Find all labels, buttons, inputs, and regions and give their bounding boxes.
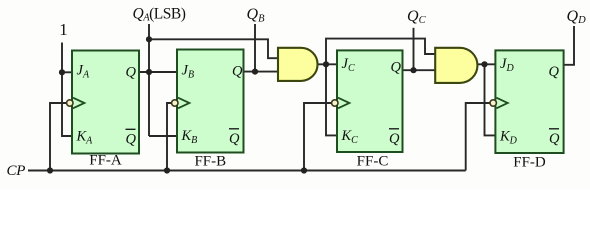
clock bubble FF-C bbox=[332, 100, 338, 106]
label CP bbox=[7, 163, 26, 179]
svg-text:Q: Q bbox=[126, 132, 137, 148]
wire AND1 output to AND2 upper input bbox=[326, 39, 436, 65]
flip-flop FF-C body bbox=[337, 50, 403, 152]
label QC-bar pin bbox=[389, 129, 400, 147]
clock bubble FF-D bbox=[490, 100, 496, 106]
wire QA to AND1 upper input bbox=[149, 39, 278, 58]
label QC pin bbox=[391, 60, 402, 76]
label JA bbox=[77, 63, 90, 81]
label KB bbox=[181, 128, 198, 146]
svg-text:Q: Q bbox=[549, 64, 560, 80]
label KD bbox=[499, 129, 518, 147]
label QC bbox=[407, 8, 427, 26]
node QC branch bbox=[410, 67, 416, 73]
clock triangle FF-A bbox=[73, 98, 84, 109]
wire QC net: QC output to AND2 lower input bbox=[403, 28, 436, 70]
label QD-bar pin bbox=[549, 129, 560, 147]
node QA/AND1 branch bbox=[146, 36, 152, 42]
wire logic-1 to JA and KA bbox=[62, 43, 72, 137]
node JA/KA tie bbox=[59, 69, 65, 75]
wire AND1 output down to KC bbox=[326, 64, 337, 135]
svg-text:FF-C: FF-C bbox=[357, 154, 389, 170]
svg-text:Q: Q bbox=[232, 64, 243, 80]
node AND2 output bbox=[481, 61, 487, 67]
AND gate 1 (QA.QB) bbox=[278, 48, 318, 81]
label QD pin bbox=[549, 64, 560, 80]
flip-flop FF-A body bbox=[72, 51, 139, 154]
label QA-bar pin bbox=[126, 129, 137, 147]
label QD bbox=[567, 8, 587, 26]
wire AND2 output down to KD bbox=[485, 64, 496, 135]
label FF-C bbox=[357, 154, 389, 170]
svg-text:Q: Q bbox=[389, 131, 400, 147]
label KA bbox=[76, 129, 94, 147]
svg-text:Q: Q bbox=[391, 60, 402, 76]
label QA pin bbox=[126, 65, 137, 81]
flip-flop FF-B body bbox=[177, 50, 244, 153]
label QB bbox=[247, 6, 266, 24]
label QB-bar pin bbox=[229, 129, 240, 147]
clock triangle FF-B bbox=[178, 98, 189, 109]
label FF-B bbox=[194, 154, 226, 170]
wire CP bus bbox=[28, 170, 466, 172]
node QB branch bbox=[252, 69, 258, 75]
node CP/FF-C junction bbox=[301, 167, 307, 173]
label JD bbox=[500, 56, 514, 74]
clock triangle FF-C bbox=[338, 98, 349, 109]
svg-text:FF-A: FF-A bbox=[89, 153, 122, 169]
node CP/FF-B junction bbox=[164, 167, 170, 173]
svg-text:Q: Q bbox=[549, 131, 560, 147]
wire QD output up to QD label bbox=[563, 26, 574, 65]
node QA/JB junction bbox=[146, 69, 152, 75]
clock bubble FF-B bbox=[172, 100, 178, 106]
clock bubble FF-A bbox=[67, 100, 73, 106]
label JB bbox=[182, 63, 195, 81]
svg-text:FF-B: FF-B bbox=[194, 154, 226, 170]
node AND1 output bbox=[323, 61, 329, 67]
svg-text:Q: Q bbox=[229, 131, 240, 147]
svg-text:FF-D: FF-D bbox=[513, 155, 546, 171]
label QB pin bbox=[232, 64, 243, 80]
wire CP to FF-A clock bbox=[50, 103, 66, 171]
label KC bbox=[341, 128, 359, 146]
svg-text:QA(LSB): QA(LSB) bbox=[133, 6, 186, 24]
wire CP to FF-D clock bbox=[466, 103, 490, 171]
label logic 1 bbox=[59, 20, 68, 39]
wire QA net: QA output to JB and up to QA label bbox=[139, 24, 177, 136]
wire AND2 output to JD bbox=[478, 63, 496, 65]
label QA (LSB) bbox=[133, 6, 186, 24]
svg-text:Q: Q bbox=[126, 65, 137, 81]
flip-flop FF-D body bbox=[495, 50, 563, 153]
label FF-A bbox=[89, 153, 122, 169]
node CP/FF-A junction bbox=[47, 167, 53, 173]
wire CP to FF-B clock bbox=[167, 103, 171, 171]
svg-text:1: 1 bbox=[59, 20, 68, 39]
wire AND1 output to JC bbox=[318, 63, 338, 65]
label FF-D bbox=[513, 155, 546, 171]
AND gate 2 (QA.QB.QC) bbox=[435, 48, 477, 83]
label JC bbox=[342, 56, 355, 74]
wire CP to FF-C clock bbox=[304, 103, 331, 171]
svg-text:CP: CP bbox=[7, 163, 26, 179]
clock triangle FF-D bbox=[496, 98, 507, 109]
wire QB net: QB output to AND1 lower input bbox=[244, 24, 279, 72]
